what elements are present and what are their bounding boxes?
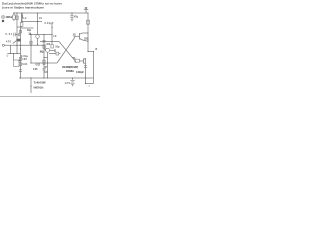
antenna lead <box>85 9 87 13</box>
terminal J1 open square <box>2 16 4 18</box>
svg-text:L4: L4 <box>24 17 27 20</box>
svg-text:TL-40×2 50W: TL-40×2 50W <box>34 82 47 85</box>
svg-text:B: B <box>96 48 98 51</box>
wire diagonal D2 <box>57 37 75 63</box>
svg-text:80.5MHz: 80.5MHz <box>66 70 75 73</box>
capacitor C2b plates <box>18 33 19 36</box>
capacitor C6 plates <box>70 16 73 17</box>
coil L10 body <box>87 20 90 24</box>
antenna bar <box>84 8 88 10</box>
resistor R3 body <box>19 63 21 66</box>
transistor Q1 <box>36 35 40 39</box>
wire meter drop <box>30 78 32 93</box>
capacitor C6 lead2 <box>71 17 73 19</box>
svg-text:2SC1306(2SC1307): 2SC1306(2SC1307) <box>62 66 78 69</box>
svg-text:10p: 10p <box>55 45 60 48</box>
wire Q4 base <box>74 35 80 37</box>
svg-text:=: = <box>89 85 91 88</box>
wire osc column <box>51 24 53 42</box>
svg-text:0.01: 0.01 <box>22 63 28 66</box>
capacitor C3 plates <box>19 70 22 72</box>
wire emitter column <box>20 27 22 79</box>
svg-text:2S: 2S <box>73 33 76 36</box>
coil L8 body <box>51 45 53 49</box>
transistor Q3 base bar <box>83 59 85 64</box>
wire RF input <box>5 44 46 46</box>
resistor R1 body <box>16 16 18 19</box>
wire battery return <box>86 83 94 85</box>
svg-text:12V: 12V <box>65 82 71 85</box>
transistor Q4 collector <box>80 33 89 34</box>
wire C stub <box>44 57 48 59</box>
wire C4 column <box>43 35 45 79</box>
svg-text:100p: 100p <box>40 50 45 53</box>
wire top supply rail <box>13 12 88 14</box>
ground symbol G1 <box>6 55 8 56</box>
transistor Q3 base wire <box>80 60 84 62</box>
crystal X1 lead <box>13 13 15 15</box>
trimmer box on column <box>20 30 22 33</box>
resistor R2 body <box>19 58 21 61</box>
svg-text:470: 470 <box>6 40 12 43</box>
capacitor C9 plates <box>84 66 87 68</box>
svg-text:28MHz: 28MHz <box>6 16 14 19</box>
terminal J1b filled square <box>2 20 4 22</box>
coil L9 body <box>56 52 59 55</box>
potentiometer VR1 body <box>16 39 21 42</box>
coil L4 <box>21 13 23 22</box>
transistor Q3 leads <box>84 58 86 64</box>
resistor R5 body <box>43 60 45 64</box>
wire K1 link <box>19 60 21 62</box>
wire Q2 collector <box>50 50 55 52</box>
svg-text:0.022μF: 0.022μF <box>76 71 85 74</box>
capacitor C6 lead <box>71 13 73 16</box>
crystal X1 lead2 <box>13 19 15 21</box>
relay K1 box <box>14 60 20 67</box>
ground symbol G2 <box>71 20 74 22</box>
wire right bus <box>87 13 89 52</box>
wire stage1 rail <box>29 34 52 36</box>
svg-text:0.01: 0.01 <box>6 33 13 36</box>
svg-text:L5: L5 <box>39 17 42 20</box>
wire mid rail <box>44 45 46 50</box>
capacitor C1 body <box>20 23 23 27</box>
coil L5 <box>37 13 39 22</box>
capacitor C4 plates <box>42 41 45 42</box>
svg-text:0.05: 0.05 <box>33 68 38 71</box>
wire base column Q1 <box>30 35 32 64</box>
wire Q1 emitter <box>37 22 39 45</box>
capacitor C8 plates <box>54 49 55 52</box>
battery BT1 bottom lead <box>72 85 74 86</box>
wire Q2 base <box>44 49 47 51</box>
svg-text:HW20-10s: HW20-10s <box>34 86 45 89</box>
wire rail2 <box>22 21 42 23</box>
svg-text:47μ: 47μ <box>74 16 79 19</box>
wire left column <box>16 13 18 54</box>
wire right column <box>93 52 95 84</box>
svg-text:100: 100 <box>22 58 27 61</box>
coil L8 stub <box>51 42 53 45</box>
svg-text:0.01μF: 0.01μF <box>45 22 55 25</box>
resistor R4 body <box>30 41 32 44</box>
wire Q2 out <box>49 53 56 55</box>
transistor Q2 <box>46 48 50 52</box>
junction dots <box>13 12 14 13</box>
svg-text:L6: L6 <box>54 35 57 38</box>
potentiometer VR1 arrow <box>13 41 16 44</box>
svg-text:47: 47 <box>44 66 47 69</box>
wire diagonal D1 <box>59 42 76 63</box>
capacitor C2 wire <box>16 34 18 36</box>
wire drop1 <box>10 45 12 53</box>
wire bias <box>21 27 34 29</box>
battery BT1 top lead <box>72 78 74 80</box>
wire ground row <box>7 53 20 55</box>
wire output column <box>85 58 87 84</box>
svg-text:T3: T3 <box>73 57 76 60</box>
wire supply link <box>88 51 94 53</box>
svg-text:0.02: 0.02 <box>36 63 41 66</box>
crystal X1 body <box>13 15 16 19</box>
wire y41 <box>40 41 59 43</box>
svg-text:(sore ni Xtal)no hairetsukumi: (sore ni Xtal)no hairetsukumi <box>2 5 44 9</box>
capacitor C2 plates <box>14 33 15 37</box>
page rule bottom <box>0 96 100 98</box>
coil L7 body <box>43 45 45 48</box>
antenna tip <box>85 7 88 9</box>
wire bottom link <box>31 62 58 64</box>
svg-text:2SC: 2SC <box>84 37 89 40</box>
svg-text:100: 100 <box>46 43 51 46</box>
wire ground bus <box>19 77 94 79</box>
driver box T3 <box>75 59 80 62</box>
capacitor C5 plates <box>42 69 45 71</box>
wire Q2 emitter column <box>47 52 49 78</box>
transistor Q4 base bar <box>79 33 81 40</box>
transistor Q4 emitter <box>80 39 89 42</box>
wire drop2 <box>13 54 15 61</box>
terminal J2 <box>2 44 4 46</box>
capacitor C1 leads <box>17 13 22 27</box>
capacitor C1 second bar <box>22 15 24 19</box>
battery BT1 plates <box>70 80 74 84</box>
wire out stub <box>59 53 61 55</box>
